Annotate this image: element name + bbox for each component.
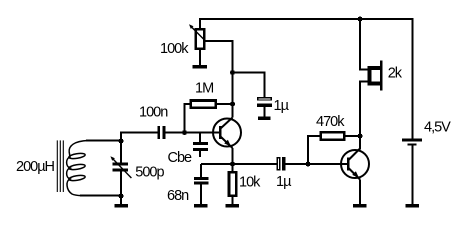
wire 10k bottom lead <box>232 197 234 204</box>
svg-text:100k: 100k <box>160 41 189 57</box>
ground under Q2 emitter <box>353 204 367 207</box>
wire 1M left lead corner to base node <box>185 104 191 133</box>
svg-text:470k: 470k <box>316 114 345 130</box>
wire branch to 1u decoupling cap <box>233 73 265 98</box>
ground under battery <box>406 204 420 207</box>
capacitor C1 1u electrolytic (top) <box>257 98 272 107</box>
ground under potentiometer <box>193 65 208 68</box>
wire base node to Q1 base bar <box>185 132 220 134</box>
wire 470k right lead <box>345 135 360 137</box>
resistor R2 1M body <box>191 101 216 108</box>
svg-text:1µ: 1µ <box>276 174 292 190</box>
wire emitter line Q1 down to junction and 10k <box>232 148 234 171</box>
svg-text:1µ: 1µ <box>274 98 290 114</box>
capacitor C6 1u electrolytic coupling (horizontal) <box>277 157 285 171</box>
node top rail <box>358 17 363 22</box>
resistor R4 470k body <box>321 132 344 140</box>
earpiece 2k <box>370 61 383 91</box>
wire 100n right lead <box>166 132 185 134</box>
wire Cbe bottom stub (unconnected) <box>199 151 201 157</box>
wire 100n left lead and tank top corner <box>121 133 157 142</box>
svg-text:10k: 10k <box>239 175 261 191</box>
wire 68n top lead <box>200 164 202 177</box>
svg-text:4,5V: 4,5V <box>424 120 451 136</box>
node base Q2 <box>306 162 311 167</box>
ground under 68n <box>194 204 208 207</box>
wire 68n bottom lead <box>200 185 202 205</box>
potentiometer R1 100k body <box>196 29 204 48</box>
node emitter Q1 <box>230 162 235 167</box>
wire earpiece lower to Q2 collector <box>360 82 368 150</box>
wire emitter node horizontal to 1u coupling cap <box>201 163 276 165</box>
wire pot wiper tap to vertical collector line Q1 <box>206 41 233 118</box>
svg-text:Cbe: Cbe <box>168 150 193 166</box>
wire 470k left lead corner down to base node <box>308 136 321 164</box>
wire pot bottom lead <box>199 50 201 65</box>
wire earpiece branch upper <box>360 19 368 70</box>
svg-text:100n: 100n <box>139 105 168 121</box>
node 1M right <box>230 102 235 107</box>
wire 1M right lead <box>217 103 233 105</box>
potentiometer arrow <box>189 24 206 41</box>
node tank bottom <box>119 194 124 199</box>
wire Q2 emitter down <box>359 180 361 205</box>
svg-text:500p: 500p <box>135 165 164 181</box>
svg-text:68n: 68n <box>167 188 189 204</box>
inductor L1 200uH coil <box>57 140 88 195</box>
resistor R3 10k body <box>229 172 236 195</box>
wire 1u decoupling bottom lead <box>264 107 266 117</box>
battery 4,5V <box>402 139 422 146</box>
wire Cbe top lead <box>199 134 201 143</box>
node collector Q2 <box>358 134 363 139</box>
capacitor C5 68n <box>194 177 209 185</box>
svg-text:2k: 2k <box>388 66 403 82</box>
transistor Q1 <box>213 118 241 149</box>
wire tank top: coil to 500p junction <box>86 140 121 142</box>
500p arrow <box>110 156 131 178</box>
transistor Q2 <box>341 149 369 180</box>
svg-text:1M: 1M <box>195 81 213 97</box>
wire 1u coupling cap right lead to Q2 base bar <box>285 163 347 165</box>
wire 500p bottom lead to ground <box>120 172 122 205</box>
svg-text:200µH: 200µH <box>16 159 55 175</box>
wire top rail from pot top to battery top <box>200 19 413 139</box>
ground under tank <box>115 204 128 207</box>
node tank top <box>119 139 124 144</box>
ground under 10k <box>226 204 240 207</box>
variable capacitor C3 500p <box>112 163 128 172</box>
wire 500p top lead <box>120 141 122 163</box>
wire battery bottom lead <box>412 146 414 204</box>
ground under 1u <box>258 117 271 120</box>
node base Q1 <box>182 130 187 135</box>
wire tank bottom: coil to junction <box>80 195 121 197</box>
node wiper branch <box>230 70 235 75</box>
capacitor C4 Cbe <box>193 142 208 151</box>
capacitor C2 100n <box>157 126 165 139</box>
